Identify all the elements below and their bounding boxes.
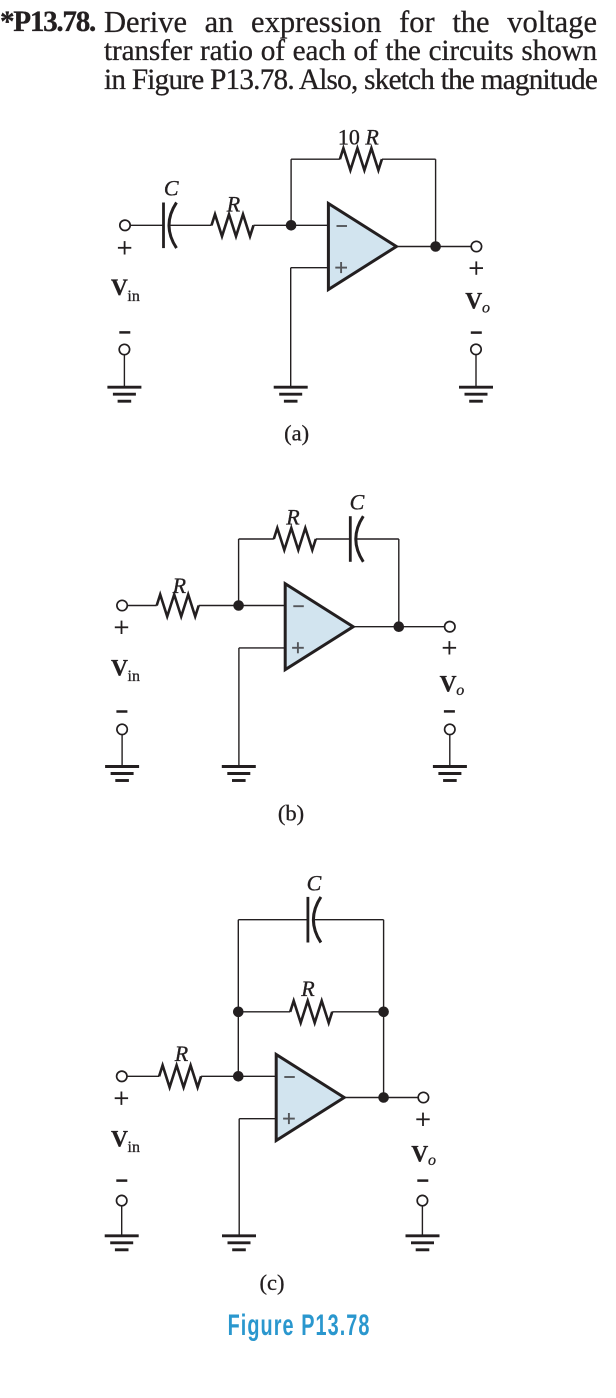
input terminal (b) Vin+ [117,600,127,610]
feedback wire C to right (b) [356,538,399,540]
wire node up to feedback (a) [290,159,292,225]
lower terminal (c) Vo- [417,1195,427,1205]
minus label at Vin (a) [119,331,130,334]
minus label at Vo (b) [444,710,455,713]
capacitor C (a) [164,203,177,249]
capacitor C (c) [308,897,321,943]
wire C to R (a) [170,224,212,226]
svg-text:o: o [456,682,464,699]
minus label at Vo (a) [471,331,482,334]
svg-text:C: C [307,871,322,896]
capacitor branch wire right (c) [314,919,384,921]
wire noninverting down to ground (b) [238,648,240,767]
lower terminal (a) Vin- [119,344,129,354]
problem number label [0,8,95,37]
wire left branch vertical (c) [237,920,239,1077]
wire noninverting input (c) [239,1118,276,1120]
resistor 10R feedback (a) [340,148,382,170]
ground at Vin (b) [105,767,139,781]
svg-text:(b): (b) [278,801,304,826]
ground at Vin (a) [107,387,141,401]
wire noninverting down to ground (a) [290,268,292,388]
plus label at Vo (b) [443,641,456,654]
lower terminal (b) Vin- [117,724,127,734]
ground at op-amp (c) [222,1236,256,1250]
wire input terminal to R (b) [127,605,156,607]
wire R to op-amp inverting input (b) [199,605,286,607]
ground at Vo (c) [406,1236,440,1250]
svg-text:(c): (c) [260,1270,285,1295]
resistor R (a) [212,214,254,236]
ground at op-amp (a) [274,387,308,401]
plus label at Vin (c) [115,1092,128,1105]
wire noninverting down to ground (c) [238,1119,240,1236]
svg-text:in: in [127,288,139,305]
op-amp (b) [285,584,353,670]
wire Vin- to ground (a) [123,355,125,388]
svg-text:V: V [465,289,482,315]
svg-text:R: R [226,192,241,217]
output terminal (c) Vo+ [418,1092,428,1102]
node inverting input (a) [286,220,297,231]
plus label at Vin (a) [118,241,131,254]
wire R branch right (c) [332,1011,383,1013]
op-amp (a) [328,204,396,290]
svg-text:10 R: 10 R [338,125,380,150]
svg-text:C: C [350,489,365,514]
svg-text:C: C [164,176,179,201]
op-amp (c) [276,1055,344,1141]
resistor R input (c) [159,1065,201,1087]
label Vin (b) [111,655,140,685]
svg-text:R: R [174,1041,189,1066]
svg-text:V: V [440,671,457,697]
capacitor C feedback (b) [350,516,363,562]
node inverting input (b) [233,600,244,611]
svg-text:V: V [111,1127,128,1153]
wire Vo- to ground (c) [421,1206,423,1236]
svg-text:R: R [285,505,300,530]
svg-text:o: o [482,299,490,316]
output wire (c) [344,1097,418,1099]
minus label at Vin (b) [116,710,127,713]
label Vin (c) [111,1127,140,1157]
wire noninverting input (b) [239,647,285,649]
feedback wire down to output (b) [398,539,400,627]
plus label at Vo (c) [416,1113,429,1126]
label Vo (c) [411,1142,436,1170]
wire R to op-amp inverting input (a) [254,224,329,226]
problem text line 2 [104,37,597,95]
output wire (b) [353,626,444,628]
svg-text:V: V [411,1142,428,1168]
input terminal (a) Vin+ [120,220,130,230]
svg-text:in: in [128,668,140,685]
wire R to op-amp inverting input (c) [201,1075,276,1077]
minus label at Vo (c) [417,1179,428,1182]
svg-text:V: V [111,275,128,301]
capacitor branch wire left (c) [238,919,308,921]
svg-text:o: o [428,1152,436,1169]
lower terminal (b) Vo- [445,724,455,734]
lower terminal (a) Vo- [471,344,481,354]
output node (b) [394,621,405,632]
wire Vin- to ground (b) [121,735,123,767]
output node (a) [430,241,441,252]
label Vin (a) [111,275,140,305]
wire Vo- to ground (b) [449,735,451,767]
plus label at Vo (a) [470,261,483,274]
svg-text:in: in [128,1139,140,1156]
ground at Vin (c) [105,1236,139,1250]
node left R branch (c) [233,1007,244,1018]
resistor R feedback (b) [274,528,316,550]
feedback wire R to C (b) [316,538,351,540]
ground at op-amp (b) [222,767,256,781]
input terminal (c) Vin+ [117,1071,127,1081]
wire input terminal to R (c) [127,1075,159,1077]
problem text line 1 [104,7,597,68]
problem text line 3 [104,66,597,124]
label Vo (b) [440,671,465,699]
svg-text:V: V [111,655,128,681]
output terminal (b) Vo+ [445,622,455,632]
svg-text:Figure P13.78: Figure P13.78 [228,1309,371,1342]
output terminal (a) Vo+ [471,241,481,251]
feedback wire left (a) [291,158,340,160]
feedback wire down to output (a) [435,159,437,246]
svg-text:(a): (a) [284,420,309,445]
ground at Vo (b) [433,767,467,781]
plus label at Vin (b) [115,621,128,634]
wire noninverting input (a) [291,267,329,269]
wire node up to feedback (b) [238,539,240,606]
lower terminal (c) Vin- [117,1195,127,1205]
node right R branch (c) [378,1007,389,1018]
wire Vin- to ground (c) [121,1206,123,1236]
feedback wire left (b) [239,538,274,540]
wire right branch vertical (c) [383,920,385,1098]
minus label at Vin (c) [116,1179,127,1182]
output wire (a) [396,246,471,248]
wire Vo- to ground (a) [475,355,477,388]
label Vo (a) [465,289,490,317]
wire input terminal to C (a) [130,224,163,226]
feedback wire right (a) [382,158,436,160]
output node (c) [378,1092,389,1103]
node inverting input (c) [233,1071,244,1082]
wire R branch left (c) [238,1011,290,1013]
resistor R input (b) [157,595,199,617]
resistor R feedback (c) [290,1001,332,1023]
ground at Vo (a) [459,387,493,401]
